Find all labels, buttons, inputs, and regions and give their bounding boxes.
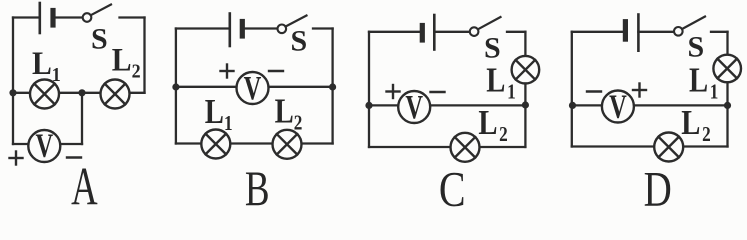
switch S lever B <box>286 16 307 27</box>
svg-text:C: C <box>439 161 466 207</box>
lamp L1 (A) <box>30 80 59 109</box>
wire B battery to switch <box>242 27 277 29</box>
wire C bottom row <box>369 146 525 148</box>
wire C top-right segment <box>507 31 525 33</box>
node dot C left <box>365 102 372 109</box>
wire A top-right segment <box>120 16 145 18</box>
svg-text:V: V <box>244 70 262 107</box>
lamp L2 (C) <box>451 133 480 162</box>
node dot D right <box>724 102 731 109</box>
wire A top-left segment <box>13 16 39 18</box>
svg-text:S: S <box>291 25 308 58</box>
wire A lamp row <box>13 92 145 94</box>
node dot B right <box>329 83 336 90</box>
minus sign A <box>67 156 81 158</box>
wire A voltmeter row <box>13 143 82 145</box>
node dot A left <box>9 89 16 96</box>
battery C long plate (+) <box>433 15 436 50</box>
wire B top-right segment <box>313 27 333 29</box>
switch S lever D <box>682 17 705 30</box>
wire A battery to switch <box>53 16 83 18</box>
minus sign C <box>431 91 445 93</box>
minus sign B <box>269 70 283 72</box>
wire C right rail lower <box>524 84 526 148</box>
svg-text:D: D <box>644 161 672 207</box>
lamp L2 (B) <box>273 130 302 159</box>
svg-text:S: S <box>688 31 705 64</box>
wire C right rail upper <box>524 32 526 56</box>
battery D long plate (+) <box>637 15 640 51</box>
svg-text:S: S <box>91 22 108 55</box>
wire C top-left segment <box>369 31 421 33</box>
lamp L1 (D) on right rail <box>713 55 741 83</box>
switch S pivot circle B <box>278 25 287 34</box>
voltmeter V (C) <box>398 91 430 123</box>
svg-text:V: V <box>35 128 53 165</box>
wire D voltmeter row <box>572 104 728 106</box>
battery A short plate (-) <box>50 11 55 26</box>
wire C battery to switch <box>434 31 469 33</box>
wire A right rail <box>143 18 145 93</box>
node dot D left <box>569 102 576 109</box>
plus sign A <box>10 152 23 165</box>
voltmeter V (A) <box>28 130 60 162</box>
node dot B left <box>172 83 179 90</box>
switch S lever A <box>91 5 111 16</box>
wire C voltmeter row <box>369 104 525 106</box>
node dot C right <box>522 101 529 108</box>
minus sign D <box>587 90 601 92</box>
switch S lever C <box>478 17 501 29</box>
lamp L2 (D) <box>654 133 683 162</box>
wire A middle branch down <box>81 93 83 144</box>
battery D short plate (-) <box>623 22 628 39</box>
battery B short plate (-) <box>240 22 245 37</box>
voltmeter V (B) <box>237 72 269 104</box>
battery C short plate (-) <box>420 26 425 41</box>
svg-text:A: A <box>71 157 98 207</box>
wire D top-left segment <box>572 31 625 33</box>
svg-text:V: V <box>405 89 423 126</box>
plus sign C <box>387 85 400 98</box>
lamp L1 (C) on right rail <box>512 56 540 84</box>
wire A left rail <box>12 18 14 93</box>
voltmeter V (D) <box>602 91 634 123</box>
lamp L1 (B) <box>201 130 230 159</box>
svg-text:S: S <box>484 32 501 65</box>
svg-text:V: V <box>609 89 627 126</box>
plus sign B <box>221 65 234 78</box>
switch S pivot circle A <box>83 13 92 22</box>
wire D right rail lower <box>726 82 728 146</box>
wire D left rail <box>571 32 573 147</box>
wire B top-left segment <box>176 27 229 29</box>
switch S pivot circle D <box>674 27 683 36</box>
wire C left rail <box>368 32 370 147</box>
wire B bottom row <box>176 142 333 144</box>
wire B left rail <box>175 29 177 144</box>
node dot A middle <box>78 89 85 96</box>
wire D top-right segment <box>711 31 728 33</box>
wire D right rail upper <box>726 32 728 55</box>
wire B voltmeter row <box>176 86 333 88</box>
wire B right rail <box>331 29 333 144</box>
battery A long plate (+) <box>38 3 41 33</box>
battery B long plate (+) <box>229 14 232 47</box>
wire D bottom row <box>572 145 728 147</box>
wire A left rail lower <box>12 93 14 144</box>
switch S pivot circle C <box>470 27 479 36</box>
plus sign D <box>633 84 646 97</box>
lamp L2 (A) <box>101 80 130 109</box>
wire D battery to switch <box>638 31 674 33</box>
svg-text:B: B <box>245 161 270 207</box>
